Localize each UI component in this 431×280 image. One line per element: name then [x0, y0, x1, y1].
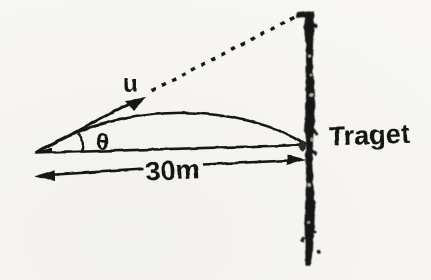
trajectory parabola	[35, 113, 306, 153]
node A: launch point arrow blob	[33, 148, 52, 154]
dimension line 30m, right segment	[203, 160, 300, 165]
velocity vector u solid shaft	[35, 100, 136, 153]
svg-text:θ: θ	[96, 130, 109, 154]
svg-text:Traget: Traget	[328, 119, 410, 152]
label theta	[96, 130, 109, 154]
dotted sight line to top of pole	[152, 15, 299, 91]
svg-text:u: u	[123, 71, 138, 98]
target pole (wall)	[297, 11, 320, 267]
dimension arrowhead left	[34, 170, 55, 181]
wire: line of sight from launch point to target	[35, 145, 305, 153]
node: impact smudge at wall	[299, 141, 306, 151]
dimension line 30m, left segment	[40, 169, 144, 176]
velocity vector u arrowhead	[125, 98, 147, 112]
label Traget	[328, 119, 410, 152]
label u	[123, 71, 138, 98]
angle arc	[78, 134, 83, 152]
svg-text:30m: 30m	[145, 154, 201, 187]
dimension arrowhead right	[287, 155, 306, 166]
label 30m	[145, 154, 201, 187]
